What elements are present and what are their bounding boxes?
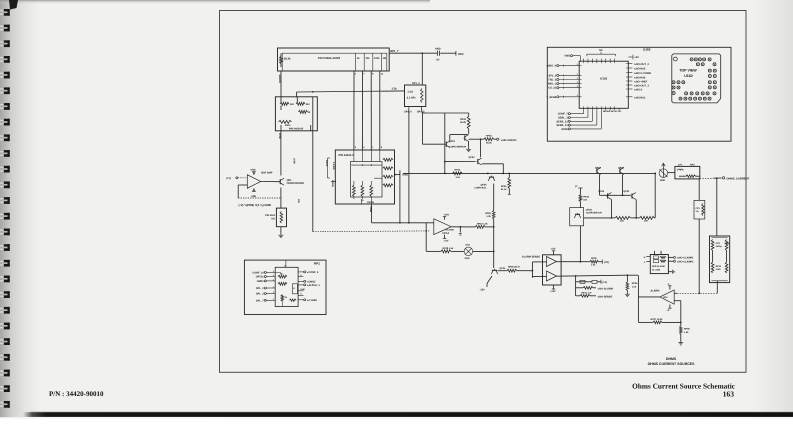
- test stub row 3: [576, 292, 613, 299]
- svg-text:RP2: RP2: [690, 163, 695, 166]
- svg-text:RP38: RP38: [684, 328, 690, 331]
- svg-text:↘NO-CHECK: ↘NO-CHECK: [500, 139, 516, 142]
- GND stub top-left of IC: [564, 55, 580, 62]
- svg-text:-15V: -15V: [480, 289, 486, 292]
- IC right pin arrows: [628, 63, 651, 99]
- svg-text:SPL_3: SPL_3: [256, 293, 264, 296]
- svg-text:GND: GND: [465, 257, 470, 260]
- svg-text:RP25: RP25: [501, 185, 507, 188]
- transistor QP27 on rail: [595, 167, 602, 196]
- IC U162 body: [579, 61, 628, 108]
- svg-text:-15V: -15V: [551, 248, 556, 251]
- sense line box G with resistor: [694, 179, 705, 293]
- supply stub +15V above UP1: [443, 214, 450, 220]
- svg-text:DS1: DS1: [466, 244, 471, 247]
- svg-text:↘C-SUM: ↘C-SUM: [306, 299, 316, 302]
- svg-text:↘NO-C-CORR: ↘NO-C-CORR: [634, 72, 651, 75]
- svg-text:GND: GND: [251, 195, 257, 198]
- terminal OHMS CURRENT: [722, 177, 749, 181]
- transistor QP29: [598, 190, 612, 219]
- svg-text:Ohms Current Source Schematic: Ohms Current Source Schematic: [632, 382, 736, 391]
- svg-text:RP36: RP36: [632, 282, 638, 285]
- wire bus 1 from box A to box C: [354, 71, 357, 150]
- svg-text:RP31 1.7k: RP31 1.7k: [582, 292, 593, 295]
- svg-text:↘NO-+REF: ↘NO-+REF: [634, 81, 648, 84]
- svg-text:LONG: LONG: [331, 180, 334, 187]
- terminal (+V) input to UP2: [226, 177, 247, 180]
- junction node on 3.3k wire: [312, 91, 314, 93]
- svg-text:SERE_23: SERE_23: [556, 120, 568, 123]
- svg-text:RP30: RP30: [591, 257, 597, 260]
- svg-text:↘NO-ALARM: ↘NO-ALARM: [597, 287, 613, 290]
- RP1 internal resistors: [275, 272, 297, 306]
- svg-text:↘NO-OUT_3: ↘NO-OUT_3: [634, 85, 650, 88]
- wire bus 2 from box A to box C: [362, 71, 365, 150]
- svg-text:CONF_14: CONF_14: [252, 271, 264, 274]
- svg-text:↘ALPHA_1: ↘ALPHA_1: [306, 284, 320, 287]
- svg-text:BUF AMP: BUF AMP: [261, 171, 273, 174]
- wire UP3b output toward clamp network: [557, 274, 639, 297]
- test stub row 2: [576, 286, 613, 290]
- wire SP1_4 down to UP1 plus input: [408, 110, 410, 223]
- svg-text:MTR: MTR: [278, 134, 281, 139]
- svg-text:P/N 04024-C: P/N 04024-C: [339, 154, 355, 157]
- svg-text:-C: -C: [667, 283, 670, 286]
- terminal NO-CLAMP2: [668, 260, 694, 263]
- resistor box D (47k under QP1): [265, 208, 286, 227]
- svg-text:GND: GND: [660, 179, 666, 182]
- svg-text:SPL_2: SPL_2: [256, 287, 264, 290]
- wire QP23 emitter to rail: [482, 164, 503, 174]
- svg-text:1.3k: 1.3k: [486, 215, 491, 218]
- svg-text:163: 163: [723, 390, 735, 399]
- connector box RP1: [244, 260, 326, 314]
- transistor QP1 CURR DRIVER: [279, 178, 304, 203]
- main rail wire: [403, 172, 655, 174]
- ground below box D: [280, 234, 282, 236]
- svg-text:UP4: UP4: [663, 296, 668, 299]
- svg-text:CURR DRIVER: CURR DRIVER: [287, 182, 304, 185]
- svg-text:↘NO-R25: ↘NO-R25: [634, 68, 646, 71]
- svg-text:10k: 10k: [365, 57, 370, 60]
- wire from box A to REF terminal: [389, 52, 456, 54]
- svg-text:↘CONF_3: ↘CONF_3: [306, 271, 319, 274]
- svg-text:CONF_7: CONF_7: [558, 113, 569, 116]
- svg-text:1-1/2W: 1-1/2W: [332, 162, 335, 170]
- dual comparator box UP3 ALARM SENSE: [522, 248, 561, 293]
- svg-text:100k: 100k: [724, 242, 730, 245]
- svg-text:1.5k: 1.5k: [456, 176, 461, 179]
- +5V stub top-right of IC: [628, 55, 639, 60]
- svg-text:91.1k: 91.1k: [501, 188, 507, 191]
- svg-text:56.2k: 56.2k: [486, 142, 492, 145]
- transistor QP23: [468, 139, 481, 165]
- svg-text:38.3k: 38.3k: [284, 58, 291, 61]
- svg-text:|C: |C: [575, 185, 578, 188]
- wire SP1_5 network to current mirror: [422, 110, 469, 174]
- svg-text:OHMS_CURRENT: OHMS_CURRENT: [726, 177, 749, 180]
- svg-text:LP1: LP1: [678, 163, 683, 166]
- junction mirror collector: [480, 138, 482, 140]
- RP1 left terminals: [252, 270, 275, 303]
- resistor RP36 1.5k to ground at UP3b node: [625, 275, 638, 296]
- wire mirror output with resistor to NO-CHECK terminal: [469, 134, 497, 144]
- svg-text:RP29 28.7k: RP29 28.7k: [508, 266, 521, 269]
- svg-text:REF: REF: [458, 52, 464, 56]
- svg-text:RP24: RP24: [455, 168, 461, 171]
- svg-text:U162: U162: [643, 48, 651, 52]
- svg-text:NC: NC: [599, 49, 603, 52]
- svg-text:CRWR: CRWR: [367, 201, 374, 204]
- wire QP24 collector down with resistor 1.3k: [485, 184, 495, 268]
- terminal NO-CLAMP1: [668, 256, 694, 259]
- IC top pins and NC bracket: [584, 49, 616, 61]
- svg-text:P/N 04024-B: P/N 04024-B: [289, 128, 304, 131]
- wire box D to ground: [280, 227, 282, 234]
- transistor QP28 on rail: [618, 167, 625, 196]
- svg-text:1.5k: 1.5k: [591, 264, 596, 267]
- transistor QP22: [450, 135, 469, 142]
- svg-text:RD/WR NC NC NC: RD/WR NC NC NC: [603, 110, 622, 113]
- supply stub -15V at QP25: [480, 276, 493, 292]
- wire bus 4 from box A to box C: [380, 71, 384, 150]
- svg-text:(C2): (C2): [604, 261, 609, 264]
- current source BP1 (circle with arrow): [659, 163, 668, 182]
- ground at feedback network: [680, 341, 682, 343]
- supply stub -15V below UP1: [443, 235, 449, 243]
- wire QP26 collector to resistor row: [584, 217, 612, 219]
- resistor RP22 56.2k: [460, 113, 470, 134]
- svg-text:100k: 100k: [374, 57, 380, 60]
- resistor RP24 1.5k on rail: [453, 168, 463, 178]
- svg-text:(-V) ½|PR2| ×(1-⅛) GND: (-V) ½|PR2| ×(1-⅛) GND: [239, 203, 271, 207]
- wire from REF node down to SP1: [421, 53, 423, 85]
- svg-text:RP27 1.5k: RP27 1.5k: [477, 222, 488, 225]
- resistor network box A (top, P/N 04024-41003): [278, 48, 399, 71]
- ground below QP22: [466, 141, 471, 151]
- IC bottom pins: [584, 108, 622, 113]
- IC bottom-left routed terminals: [556, 110, 601, 131]
- svg-text:430: 430: [306, 103, 311, 106]
- wire feedback loop of UP2: [238, 185, 280, 198]
- wire base link of mirror pair: [600, 194, 631, 196]
- svg-text:+5V: +5V: [634, 56, 639, 59]
- svg-text:3.3k: 3.3k: [392, 88, 398, 91]
- svg-text:QP27: QP27: [595, 167, 602, 170]
- svg-text:GND2: GND2: [257, 280, 265, 283]
- svg-text:↘GND2: ↘GND2: [306, 280, 316, 283]
- emitter resistor RP34 100: [631, 216, 656, 222]
- ground stub of box H: [668, 270, 674, 274]
- junction rail QP24 base: [487, 173, 489, 175]
- svg-text:3.3 SP1: 3.3 SP1: [407, 97, 416, 100]
- svg-text:TOP VIEW: TOP VIEW: [679, 69, 697, 73]
- feedback row resistor RP37 10.0k: [638, 297, 681, 324]
- svg-text:↘NO-R45: ↘NO-R45: [634, 77, 646, 80]
- svg-text:47k: 47k: [271, 217, 276, 220]
- svg-text:(C3): (C3): [602, 281, 607, 284]
- resistor RP38 1.5k to ground: [680, 322, 691, 341]
- svg-text:56.2k: 56.2k: [460, 121, 467, 124]
- svg-text:-3V: -3V: [436, 59, 440, 62]
- resistor RP25 91.1k hanging from rail: [501, 173, 511, 195]
- svg-text:1M: 1M: [383, 57, 386, 60]
- svg-text:RP1: RP1: [314, 262, 320, 266]
- svg-text:RP26: RP26: [485, 212, 491, 215]
- svg-text:SER ALARM: SER ALARM: [652, 265, 665, 268]
- output filter box E (L/R): [668, 163, 700, 179]
- svg-text:+15V: +15V: [444, 214, 450, 217]
- label OHMS CURRENT SOURCES: [648, 357, 696, 366]
- svg-text:2.2Ω: 2.2Ω: [408, 91, 413, 94]
- svg-text:CURR MIR DR: CURR MIR DR: [586, 211, 602, 214]
- svg-text:QP29: QP29: [598, 190, 605, 193]
- svg-text:RP28 1.5k: RP28 1.5k: [443, 247, 454, 250]
- resistor RP29 28.7k: [498, 266, 533, 273]
- schematic border frame: [220, 11, 747, 373]
- svg-text:1000p: 1000p: [716, 245, 723, 248]
- svg-text:TXD_2: TXD_2: [548, 79, 557, 82]
- svg-text:SHLDR: SHLDR: [278, 75, 281, 84]
- svg-text:GND: GND: [300, 288, 305, 291]
- svg-text:R011: R011: [285, 124, 291, 127]
- svg-text:U162: U162: [684, 74, 693, 78]
- svg-text:GP12: GP12: [325, 160, 328, 167]
- svg-text:ALARM: ALARM: [446, 228, 454, 231]
- terminal NO-CHECK: [497, 138, 517, 142]
- svg-text:↘NO-OUT_2: ↘NO-OUT_2: [634, 63, 650, 66]
- svg-text:U162: U162: [600, 77, 607, 81]
- svg-text:ALARM SENSE: ALARM SENSE: [522, 255, 540, 258]
- svg-text:MO5I: MO5I: [561, 128, 568, 131]
- svg-text:+C: +C: [667, 309, 670, 312]
- svg-text:(+V): (+V): [226, 177, 231, 180]
- svg-text:MISO_0: MISO_0: [547, 65, 557, 68]
- svg-text:SP1_4: SP1_4: [404, 110, 412, 113]
- test stub row 1: [576, 276, 608, 296]
- RP1 right terminals: [298, 271, 320, 302]
- svg-text:RP35: RP35: [716, 265, 722, 268]
- svg-text:QP28: QP28: [618, 167, 625, 170]
- svg-text:OPT21: OPT21: [256, 276, 264, 279]
- terminal REF: [456, 51, 464, 56]
- zener VD1 above UP2: [251, 168, 257, 174]
- op-amp UP2 (buffer, left): [247, 171, 272, 188]
- wire bus 3 from box A to box C: [371, 71, 374, 150]
- wire UP3a output to C-terminal: [557, 257, 610, 267]
- svg-text:GND: GND: [435, 47, 441, 50]
- op-amp UP4 ALARM (points left): [650, 283, 680, 312]
- svg-text:GND: GND: [402, 173, 408, 176]
- wire UP1 feedback row: [425, 223, 494, 253]
- wire UP2 output to QP1 base: [261, 181, 280, 183]
- emitter resistor RP33 100: [612, 216, 631, 222]
- resistor box B (P/N 04024-B, left): [275, 97, 317, 131]
- clamp network box H: [644, 251, 669, 274]
- wire through box B down to UP1 minus input (long vertical): [313, 97, 430, 232]
- svg-text:47k: 47k: [297, 199, 300, 204]
- svg-text:RP37 10.0k: RP37 10.0k: [651, 318, 664, 321]
- svg-text:SP1_2: SP1_2: [548, 74, 556, 77]
- svg-text:GND: GND: [251, 168, 257, 171]
- junction rail / SP1_5 branch: [444, 173, 446, 175]
- svg-text:GND: GND: [564, 55, 570, 58]
- svg-text:SP1_2: SP1_2: [412, 82, 420, 85]
- svg-text:OHMS: OHMS: [666, 357, 677, 361]
- wire UP1 output with resistor 1.5k: [451, 222, 494, 235]
- wire QP23 base from SP1_5 line: [444, 161, 476, 163]
- wire from box C right pin to rail area: [394, 170, 401, 223]
- svg-text:UP1A: UP1A: [443, 232, 450, 235]
- microcontroller section box U162: [547, 47, 731, 141]
- svg-text:430: 430: [290, 103, 295, 106]
- svg-text:CRW: CRW: [369, 207, 372, 213]
- svg-text:1.5k: 1.5k: [684, 331, 689, 334]
- capacitor CP1 on REF wire: [435, 47, 441, 61]
- svg-text:CURR MIRROR: CURR MIRROR: [449, 146, 466, 149]
- svg-text:AL GND: AL GND: [652, 269, 661, 272]
- wire MTR from box B to QP1: [278, 131, 295, 176]
- svg-text:QP30: QP30: [623, 190, 630, 193]
- svg-text:ALARM: ALARM: [650, 290, 659, 293]
- svg-text:↘NO-R23: ↘NO-R23: [634, 96, 646, 99]
- divider box F (RC network): [710, 236, 731, 283]
- switch box SP1: [404, 82, 426, 113]
- junction SP1_4 wire: [408, 222, 410, 224]
- lamp DS1 on feedback row: [464, 244, 473, 260]
- transistor QP26 CURR MIR DR (boxed): [570, 208, 602, 226]
- wire box E to OHMS CURRENT terminal: [700, 177, 722, 179]
- junction rail QP23 emitter: [502, 173, 504, 175]
- wire resistor row up to rail junction: [654, 173, 656, 218]
- svg-text:SERL_3: SERL_3: [558, 117, 568, 120]
- svg-text:-15V: -15V: [444, 240, 449, 243]
- svg-text:P/N 04024-41003: P/N 04024-41003: [318, 56, 340, 60]
- IC left pin terminals: [546, 63, 579, 99]
- svg-text:↘NO-X: ↘NO-X: [634, 89, 643, 92]
- svg-text:SPL_7: SPL_7: [256, 299, 264, 302]
- svg-text:↘NO-CLAMP2: ↘NO-CLAMP2: [677, 261, 694, 264]
- resistor RP32 10k: [579, 195, 589, 208]
- left bracket label 1-1/2W of box C: [325, 158, 335, 187]
- svg-text:QP25: QP25: [500, 267, 507, 270]
- spiral binding teeth: [0, 0, 18, 408]
- wire terminal node down to divider box F: [716, 178, 718, 236]
- box C left pin stub: [331, 181, 336, 182]
- svg-text:T_SEN5: T_SEN5: [546, 96, 556, 99]
- svg-text:1.5k: 1.5k: [632, 285, 637, 288]
- svg-text:CURR BAL: CURR BAL: [474, 186, 487, 189]
- svg-text:OHMS CURRENT SOURCES: OHMS CURRENT SOURCES: [648, 362, 696, 366]
- svg-text:RP1_7: RP1_7: [390, 50, 399, 53]
- svg-text:+15V: +15V: [550, 290, 556, 293]
- resistor pack box C (P/N 04024-C): [335, 150, 394, 204]
- transistor QP30: [623, 190, 637, 219]
- svg-text:RP32: RP32: [583, 195, 589, 198]
- wire box C pin to UP1 plus input: [369, 204, 434, 223]
- wire UP4 output to feedback column: [638, 296, 660, 298]
- transistor QP24 CURR BAL: [474, 176, 495, 190]
- wire QP26 emitter down to UP3a output node: [579, 226, 581, 262]
- svg-text:SERE_21: SERE_21: [556, 124, 568, 127]
- supply terminal -15V for QP26: [575, 185, 582, 195]
- wire QP1 emitter to box D: [280, 188, 282, 209]
- wire 3.3k from box B to SP1: [297, 88, 405, 97]
- svg-text:P/N : 34420-90010: P/N : 34420-90010: [49, 390, 104, 398]
- svg-text:CS_21: CS_21: [548, 87, 556, 90]
- junction node at REF wire: [421, 52, 423, 54]
- svg-text:MTR: MTR: [292, 159, 295, 164]
- wire box F to UP4 input (dashed): [677, 283, 718, 295]
- svg-text:1.5M: 1.5M: [716, 268, 721, 271]
- bottom page-edge black bar: [30, 411, 793, 412]
- transistor QP21 CURR MIRROR: [445, 140, 466, 149]
- svg-text:↘NO-SENSE: ↘NO-SENSE: [597, 295, 612, 298]
- wire SHLDR from box A to resistor box B: [278, 71, 281, 97]
- zener VD2 below UP2: [251, 188, 257, 198]
- svg-text:QP23: QP23: [468, 156, 475, 159]
- svg-text:↘NO-CLAMP1: ↘NO-CLAMP1: [677, 257, 694, 260]
- svg-text:RXD_1: RXD_1: [548, 83, 557, 86]
- socket top view U162: [672, 54, 721, 103]
- op-amp UP1: [434, 219, 454, 235]
- transistor QP25: [491, 267, 506, 274]
- svg-text:RP23: RP23: [486, 134, 492, 137]
